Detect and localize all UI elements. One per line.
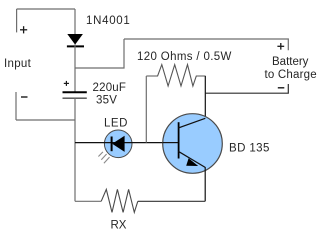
transistor Q1 emitter diagonal — [178, 151, 205, 167]
wire input minus horizontal — [16, 119, 75, 121]
LED D2 circle — [104, 130, 132, 158]
wire emitter down — [204, 167, 206, 201]
wire resistor right leg down to collector — [204, 76, 206, 119]
wire top rail to battery plus — [124, 39, 288, 50]
wire left rail diode to cap — [74, 45, 76, 93]
wire left rail cap to bottom — [74, 98, 76, 201]
diode D1 1N4001 — [67, 34, 84, 46]
transistor Q1 base bar — [178, 122, 180, 158]
LED light rays — [98, 152, 109, 163]
transistor Q1 BD135 circle — [163, 114, 223, 174]
resistor RX zigzag — [101, 189, 138, 212]
wire input plus top horizontal — [17, 8, 75, 10]
transistor Q1 base lead inside — [163, 142, 178, 144]
svg-text:Input: Input — [4, 58, 32, 70]
svg-text:120 Ohms / 0.5W: 120 Ohms / 0.5W — [137, 51, 232, 63]
node battery + label — [277, 43, 284, 50]
wire battery minus to collector — [206, 84, 289, 93]
svg-text:35V: 35V — [96, 95, 117, 107]
wire input plus terminal vertical — [16, 9, 18, 32]
wire led-base — [75, 142, 178, 144]
wire junction to top rail — [75, 39, 124, 68]
resistor R1 120 Ohms zigzag — [146, 65, 205, 86]
svg-text:220uF: 220uF — [93, 82, 127, 94]
wire left rail upper — [74, 9, 76, 35]
svg-text:to Charge: to Charge — [265, 69, 317, 81]
node input + label — [20, 26, 27, 33]
svg-text:BD 135: BD 135 — [229, 143, 270, 155]
svg-text:LED: LED — [104, 118, 128, 130]
node input - label — [21, 96, 28, 98]
transistor Q1 emitter arrow — [186, 158, 198, 166]
node input - terminal vertical — [15, 92, 17, 120]
capacitor C1 220uF plus sign — [64, 81, 69, 86]
wire bottom rail to RX — [75, 200, 101, 202]
LED D2 cathode bar — [111, 137, 113, 152]
LED D2 triangle — [112, 136, 124, 152]
transistor Q1 collector diagonal — [178, 118, 205, 128]
wire resistor left leg down to base wire — [145, 76, 147, 143]
svg-text:1N4001: 1N4001 — [86, 15, 130, 27]
svg-text:RX: RX — [111, 220, 127, 232]
svg-text:Battery: Battery — [272, 56, 309, 68]
capacitor C1 220uF plates — [63, 92, 87, 98]
wire rx to emitter — [138, 200, 205, 202]
node battery - label — [278, 87, 285, 89]
